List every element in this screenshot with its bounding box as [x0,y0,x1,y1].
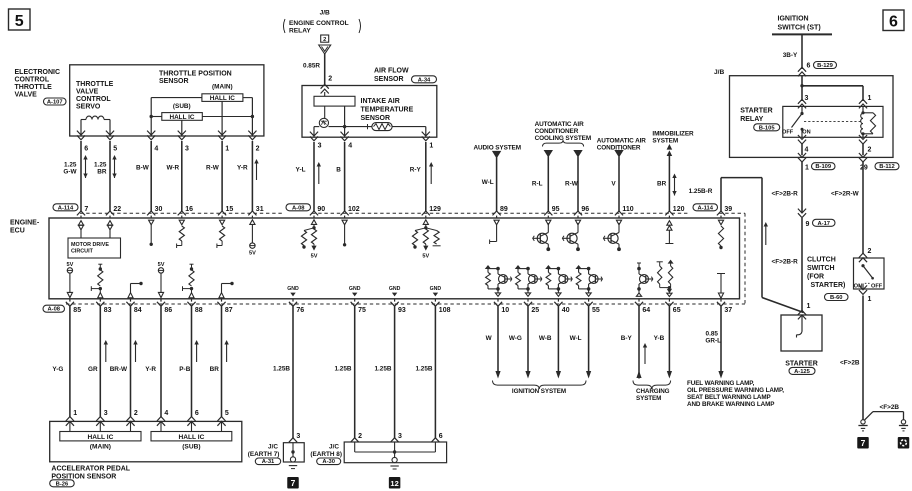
pin37 output [717,273,725,275]
pin30 internal [149,220,154,225]
svg-text:STARTER: STARTER [785,361,818,368]
svg-text:3: 3 [296,433,300,440]
svg-text:SERVO: SERVO [76,104,101,111]
pin89 internal [494,220,499,225]
svg-text:86: 86 [164,307,172,314]
svg-text:GND: GND [389,286,401,292]
svg-text:MOTOR DRIVE: MOTOR DRIVE [71,242,109,248]
svg-text:40: 40 [562,307,570,314]
svg-text:A-30: A-30 [322,459,335,465]
pin95 internal transistor [546,220,551,225]
svg-text:2: 2 [134,410,138,417]
svg-text:6: 6 [439,433,443,440]
page marker 6 [883,10,904,31]
svg-text:6: 6 [195,410,199,417]
pin87 latch [219,293,224,298]
airflow sensing element circle [324,106,326,118]
svg-text:1: 1 [805,164,809,171]
svg-text:(MAIN): (MAIN) [212,84,233,91]
svg-text:1: 1 [225,146,229,153]
svg-text:120: 120 [673,206,685,213]
svg-text:4: 4 [154,146,158,153]
ignition drivers pins 10 25 40 55 [485,265,491,269]
svg-text:0.85: 0.85 [706,331,719,338]
svg-text:29: 29 [860,164,868,171]
svg-text:P-B: P-B [179,366,190,373]
svg-text:3: 3 [805,95,809,102]
svg-text:85: 85 [73,307,81,314]
svg-text:SENSOR: SENSOR [361,115,391,122]
earth wires 1.25B [292,306,294,438]
svg-text:<F>2R-W: <F>2R-W [831,191,860,198]
svg-text:88: 88 [195,307,203,314]
J/B connector 2 [321,35,329,42]
svg-text:5: 5 [225,410,229,417]
pin83 sense network [98,263,102,265]
svg-text:<F>2B: <F>2B [840,360,860,367]
svg-text:AND BRAKE WARNING LAMP: AND BRAKE WARNING LAMP [687,401,774,408]
svg-text:1.25B: 1.25B [415,366,432,373]
svg-text:W-B: W-B [539,335,552,342]
connector A-08 bottom dashed row [43,305,65,312]
svg-text:ELECTRONIC: ELECTRONIC [15,69,61,76]
thermistor [314,126,319,128]
svg-text:<F>2B: <F>2B [880,404,900,411]
svg-text:BR-W: BR-W [110,366,128,373]
svg-text:3: 3 [104,410,108,417]
svg-text:3: 3 [318,143,322,150]
svg-text:SWITCH: SWITCH [807,265,835,272]
svg-text:CHARGING: CHARGING [636,388,670,395]
right grounds [861,420,865,424]
svg-text:W-L: W-L [570,335,582,342]
svg-text:B-112: B-112 [879,164,894,170]
svg-text:HALL IC: HALL IC [178,434,204,441]
svg-text:39: 39 [724,206,732,213]
svg-text:A-31: A-31 [262,459,275,465]
svg-text:25: 25 [531,307,539,314]
svg-text:OIL PRESSURE WARNING LAMP,: OIL PRESSURE WARNING LAMP, [687,387,784,394]
svg-text:FUEL WARNING LAMP,: FUEL WARNING LAMP, [687,380,755,387]
svg-text:CLUTCH: CLUTCH [807,257,836,264]
svg-text:(EARTH 7): (EARTH 7) [248,451,280,458]
svg-text:A-08: A-08 [292,205,305,211]
svg-text:1.25: 1.25 [94,162,107,169]
svg-text:5V: 5V [311,254,318,260]
throttle valve control servo coil [80,120,82,137]
svg-text:(EARTH 8): (EARTH 8) [310,451,342,458]
svg-text:VALVE: VALVE [76,89,99,96]
svg-text:102: 102 [348,206,360,213]
relay switch [801,106,803,113]
svg-text:9: 9 [806,221,810,228]
motor drive circuit [78,221,83,226]
pin120 internal [667,221,672,226]
svg-text:STARTER): STARTER) [811,282,846,289]
svg-text:J/B: J/B [714,69,724,76]
svg-text:Y-B: Y-B [654,335,665,342]
svg-text:30: 30 [155,206,163,213]
svg-text:R-Y: R-Y [410,167,422,174]
svg-text:55: 55 [592,307,600,314]
svg-text:129: 129 [429,206,441,213]
svg-text:A-107: A-107 [47,100,63,106]
svg-text:HALL IC: HALL IC [169,114,194,121]
charging system wires [638,306,640,378]
svg-text:TEMPERATURE: TEMPERATURE [361,107,414,114]
svg-text:RELAY: RELAY [740,116,763,123]
svg-text:4: 4 [164,410,168,417]
pin85 5V source [67,268,72,273]
svg-text:IMMOBILIZER: IMMOBILIZER [652,131,694,138]
svg-text:1.25B: 1.25B [334,366,351,373]
svg-text:B-60: B-60 [830,295,843,301]
warning lamp wire 0.85 GR-L [720,306,722,371]
direction arrows [85,159,87,179]
svg-text:6: 6 [889,14,898,31]
svg-text:1: 1 [868,296,872,303]
pin64 driver [637,262,641,264]
svg-text:2: 2 [868,248,872,255]
pin96 internal transistor [575,220,580,225]
svg-text:108: 108 [439,307,451,314]
svg-text:Y-R: Y-R [145,366,156,373]
svg-text:A-08: A-08 [47,307,60,313]
wire to air flow sensor pin2 [324,54,326,84]
svg-text:THROTTLE: THROTTLE [15,84,53,91]
svg-text:0.85R: 0.85R [303,63,320,70]
svg-text:1: 1 [73,410,77,417]
svg-text:3: 3 [185,146,189,153]
svg-text:37: 37 [724,307,732,314]
clutch switch feed wire F2R-W [862,162,864,254]
svg-text:<F>2B-R: <F>2B-R [772,259,799,266]
svg-text:R-W: R-W [206,165,220,172]
pin129 internal divider [423,220,428,225]
svg-text:(SUB): (SUB) [173,103,191,110]
svg-text:A-114: A-114 [698,205,714,211]
svg-text:HALL IC: HALL IC [210,95,235,102]
svg-text:CONDITIONER: CONDITIONER [535,128,579,135]
pin110 internal transistor [616,220,621,225]
svg-text:W-L: W-L [482,179,494,186]
svg-text:B-105: B-105 [759,125,776,131]
svg-text:15: 15 [226,206,234,213]
svg-text:W: W [486,335,493,342]
svg-text:V: V [611,181,616,188]
svg-text:16: 16 [185,206,193,213]
svg-text:OFF: OFF [871,283,883,289]
svg-text:RELAY: RELAY [289,28,311,35]
svg-text:1.25: 1.25 [64,162,77,169]
svg-text:B-26: B-26 [56,481,69,487]
svg-text:2: 2 [358,433,362,440]
svg-text:R-W: R-W [565,181,579,188]
pin102 internal [342,220,347,225]
svg-text:J/C: J/C [329,443,339,450]
pin31 internal 5V [250,220,255,225]
svg-text:4: 4 [348,143,352,150]
svg-text:R-L: R-L [532,181,543,188]
svg-text:89: 89 [500,206,508,213]
svg-text:76: 76 [296,307,304,314]
svg-text:5: 5 [113,146,117,153]
svg-text:7: 7 [861,438,866,448]
page marker 5 [9,9,31,30]
svg-text:A-114: A-114 [58,205,74,211]
svg-text:1: 1 [807,303,811,310]
svg-text:IGNITION SYSTEM: IGNITION SYSTEM [512,388,566,395]
J/C earth8 box A-30 [351,438,359,442]
airflow inner module [314,96,355,106]
svg-text:1.25B-R: 1.25B-R [689,188,713,195]
throttle position sensor internal wires [151,97,202,99]
svg-text:B-109: B-109 [815,164,832,170]
svg-text:75: 75 [358,307,366,314]
pin65 network with diode [657,261,663,263]
svg-text:B-Y: B-Y [621,335,633,342]
svg-text:GND: GND [287,286,299,292]
svg-text:GND: GND [430,286,442,292]
svg-text:7: 7 [84,206,88,213]
svg-text:(MAIN): (MAIN) [90,444,111,451]
svg-text:1.25B: 1.25B [273,366,290,373]
svg-text:CONTROL: CONTROL [76,96,111,103]
svg-text:1.25B: 1.25B [374,366,391,373]
wire 3B-Y [801,34,803,69]
svg-text:B-W: B-W [136,165,150,172]
svg-text:THROTTLE POSITION: THROTTLE POSITION [159,71,232,78]
svg-text:VALVE: VALVE [15,92,38,99]
svg-text:87: 87 [225,307,233,314]
svg-text:96: 96 [581,206,589,213]
svg-text:110: 110 [622,206,633,213]
svg-text:31: 31 [256,206,264,213]
svg-text:BR: BR [657,181,667,188]
pedal pin labels [66,417,74,421]
svg-text:GR-L: GR-L [705,338,721,345]
svg-text:64: 64 [642,307,650,314]
svg-text:J/B: J/B [320,10,330,17]
svg-text:GND: GND [349,286,361,292]
pin84 latch [128,293,133,298]
svg-text:SENSOR: SENSOR [159,78,189,85]
svg-text:1: 1 [429,143,433,150]
svg-text:CIRCUIT: CIRCUIT [71,249,94,255]
svg-text:1: 1 [868,95,872,102]
throttle valve assembly box A-107 [70,65,264,136]
svg-text:A-17: A-17 [817,221,830,227]
svg-text:2: 2 [323,37,326,43]
svg-text:6: 6 [807,62,811,69]
svg-text:2: 2 [256,146,260,153]
svg-text:90: 90 [317,206,325,213]
connector A-114 top dashed row [53,204,78,211]
svg-text:SENSOR: SENSOR [374,76,404,83]
svg-text:BR: BR [97,169,107,176]
svg-text:A-34: A-34 [418,77,431,83]
svg-text:W-G: W-G [509,335,522,342]
svg-text:84: 84 [134,307,142,314]
airflow pin drops [313,127,315,137]
svg-text:12: 12 [390,479,398,488]
connector A-08 top capsule [286,204,311,211]
svg-text:4: 4 [805,146,809,153]
svg-text:65: 65 [673,307,681,314]
svg-text:83: 83 [104,307,112,314]
svg-text:2: 2 [328,76,332,83]
svg-text:OFF: OFF [782,130,794,136]
svg-text:SYSTEM: SYSTEM [636,395,661,402]
svg-text:CONTROL: CONTROL [15,77,50,84]
svg-text:AIR FLOW: AIR FLOW [374,68,409,75]
svg-text:SYSTEM: SYSTEM [652,138,678,145]
svg-text:SWITCH (ST): SWITCH (ST) [778,25,821,32]
svg-text:B: B [336,167,341,174]
pin86 5V source [158,268,163,273]
svg-text:AUDIO SYSTEM: AUDIO SYSTEM [474,145,521,152]
pin16 internal pull resistor [179,220,184,225]
svg-text:THROTTLE: THROTTLE [76,81,114,88]
svg-text:7: 7 [291,478,296,488]
svg-text:5V: 5V [249,251,256,257]
svg-text:AUTOMATIC AIR: AUTOMATIC AIR [535,121,584,128]
svg-text:BR: BR [210,366,220,373]
pin15 internal pull resistor [220,220,225,225]
svg-text:5: 5 [15,13,24,30]
svg-text:(FOR: (FOR [807,274,824,281]
feed split inside J/B [801,76,803,101]
pin39 internal resistor [718,220,723,225]
svg-text:ENGINE-: ENGINE- [10,220,40,227]
svg-text:ACCELERATOR PEDAL: ACCELERATOR PEDAL [51,466,130,473]
svg-text:2: 2 [868,146,872,153]
svg-text:ON: ON [802,130,810,136]
svg-text:3: 3 [398,433,402,440]
svg-text:5V: 5V [158,262,165,268]
svg-text:INTAKE AIR: INTAKE AIR [361,98,400,105]
engine ECU box [49,218,740,299]
svg-text:J/C: J/C [268,443,278,450]
svg-text:GR: GR [88,366,98,373]
connector A-114 right capsule [693,204,718,211]
svg-text:ENGINE CONTROL: ENGINE CONTROL [289,20,349,27]
svg-text:6: 6 [84,146,88,153]
top connector pin labels [77,211,85,215]
relay coil and resistor [862,106,864,112]
J/C earth7 box A-31 [289,438,297,442]
svg-text:G-W: G-W [63,169,77,176]
svg-text:5V: 5V [66,262,73,268]
svg-text:93: 93 [398,307,406,314]
svg-text:(SUB): (SUB) [182,444,200,451]
svg-text:A-125: A-125 [794,369,811,375]
svg-text:<F>2B-R: <F>2B-R [772,191,799,198]
svg-text:3B-Y: 3B-Y [783,52,798,59]
svg-text:STARTER: STARTER [740,108,773,115]
svg-text:IGNITION: IGNITION [778,16,809,23]
svg-text:10: 10 [501,307,509,314]
bottom connector pin labels [69,299,71,302]
svg-text:B-129: B-129 [817,63,834,69]
accelerator pedal position sensor box B-26 [50,421,242,461]
throttle connector pins at box edge [77,135,85,139]
svg-text:Y-G: Y-G [52,366,63,373]
svg-text:5V: 5V [422,254,429,260]
svg-text:W-R: W-R [167,165,180,172]
pin90 internal divider to 5V [311,220,316,225]
svg-text:22: 22 [113,206,121,213]
svg-text:Y-L: Y-L [296,167,306,174]
pin88 sense network [190,263,194,265]
svg-text:HALL IC: HALL IC [87,434,113,441]
ignition system wires [497,306,499,371]
starter feed wire F2B-R [801,162,803,213]
svg-text:Y-R: Y-R [237,165,248,172]
connector label A-107 [44,98,67,105]
pedal harness wires [69,306,71,417]
svg-text:95: 95 [552,206,560,213]
svg-text:ECU: ECU [10,228,25,235]
svg-text:AUTOMATIC AIR: AUTOMATIC AIR [597,138,646,145]
